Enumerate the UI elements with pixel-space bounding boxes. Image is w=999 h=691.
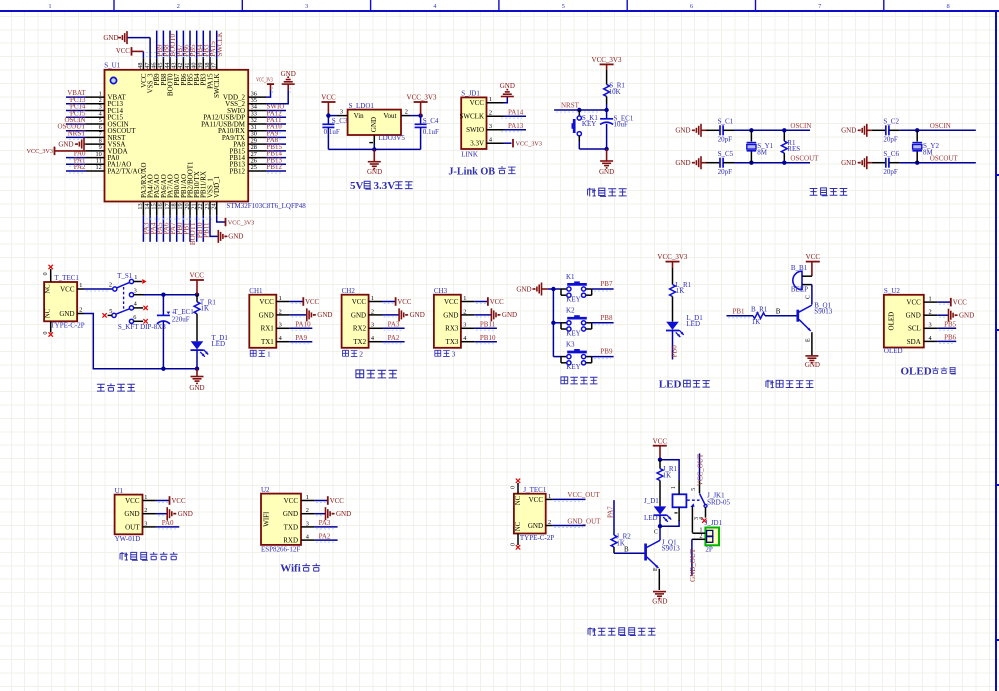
svg-text:OLED: OLED — [884, 347, 903, 355]
wire — [156, 526, 179, 528]
svg-text:GND: GND — [189, 384, 204, 392]
svg-text:VCC_OUT: VCC_OUT — [567, 491, 600, 499]
wire — [217, 216, 226, 222]
wire — [382, 341, 405, 343]
ground — [189, 377, 204, 392]
junction — [604, 147, 608, 151]
title power circuit — [97, 383, 135, 391]
wire — [701, 129, 706, 131]
svg-text:GND: GND — [959, 312, 974, 320]
wire — [811, 262, 813, 277]
wire — [287, 84, 289, 90]
ground — [367, 162, 382, 176]
wire — [162, 31, 164, 59]
svg-text:0: 0 — [42, 272, 49, 275]
wire — [504, 129, 527, 131]
svg-text:LDO3V5: LDO3V5 — [378, 134, 405, 142]
wire — [659, 515, 661, 526]
svg-text:GND: GND — [367, 168, 382, 176]
svg-text:20pF: 20pF — [718, 135, 733, 143]
svg-text:10K: 10K — [609, 88, 621, 96]
wire — [290, 341, 313, 343]
svg-text:PB7: PB7 — [600, 280, 613, 288]
wire — [937, 340, 956, 342]
svg-text:GND: GND — [59, 310, 74, 318]
svg-text:PB11: PB11 — [480, 321, 496, 329]
title OLED display — [901, 365, 957, 377]
power VCC — [303, 297, 319, 306]
wire — [900, 129, 976, 131]
wire — [867, 162, 872, 164]
svg-text:GND: GND — [443, 311, 458, 319]
svg-text:S_C4: S_C4 — [423, 117, 439, 125]
svg-text:VCC: VCC — [305, 299, 319, 306]
junction — [551, 287, 555, 291]
power VCC — [806, 253, 821, 262]
svg-text:5: 5 — [562, 3, 565, 10]
switch S_K1 KEY — [572, 110, 599, 142]
wire — [504, 97, 508, 103]
junction — [915, 128, 919, 132]
title crystal circuit — [810, 188, 848, 196]
svg-text:VCC_3V3: VCC_3V3 — [592, 56, 622, 64]
svg-text:0: 0 — [510, 543, 517, 546]
svg-text:2: 2 — [109, 281, 112, 288]
wire — [328, 115, 337, 117]
resistor T_R1 1K — [194, 295, 216, 342]
svg-text:LINK: LINK — [461, 151, 478, 159]
svg-text:GND: GND — [652, 598, 667, 606]
ground — [218, 230, 243, 243]
svg-text:LED: LED — [644, 514, 658, 522]
switch K3 KEY — [561, 341, 592, 372]
svg-text:GND: GND — [500, 82, 515, 90]
junction — [749, 161, 753, 165]
wire — [606, 64, 608, 70]
svg-text:GND: GND — [370, 117, 378, 132]
svg-text:S_U1: S_U1 — [104, 62, 120, 70]
title LED circuit — [659, 379, 710, 391]
pin GND LDO1 — [373, 135, 375, 144]
svg-text:PA2: PA2 — [74, 163, 86, 171]
no-connect marker — [516, 479, 520, 483]
svg-text:S_C3: S_C3 — [332, 117, 348, 125]
title serial circuit — [356, 370, 397, 378]
svg-text:NC: NC — [45, 308, 52, 318]
svg-text:GND: GND — [103, 34, 118, 42]
svg-text:PA2/TX/AO: PA2/TX/AO — [108, 167, 143, 175]
svg-text:GND: GND — [906, 312, 921, 320]
svg-text:Vout: Vout — [383, 112, 396, 120]
svg-text:5: 5 — [109, 308, 112, 315]
wire — [734, 162, 810, 164]
svg-text:SWIO: SWIO — [466, 126, 484, 134]
svg-text:B_R1: B_R1 — [751, 305, 768, 313]
wire — [127, 37, 150, 39]
ground — [500, 82, 515, 97]
svg-text:J_TEC1: J_TEC1 — [523, 486, 546, 494]
connector CH2 body — [342, 287, 382, 348]
capacitor T_EC1 220uF — [157, 295, 194, 369]
wire — [606, 104, 608, 110]
svg-text:C: C — [654, 529, 658, 535]
svg-text:VCC: VCC — [125, 497, 140, 505]
IC U1 pin names and numbers — [86, 58, 266, 216]
wire — [659, 526, 661, 540]
svg-text:VCC: VCC — [259, 298, 274, 306]
svg-text:GND: GND — [317, 311, 332, 319]
power VCC — [189, 272, 204, 280]
wire — [553, 356, 561, 358]
label serial 1 — [250, 349, 271, 358]
power VCC_3V3 — [226, 218, 255, 227]
wire — [176, 31, 178, 59]
switch T_S1 S_KFT DIP-8X8 — [108, 272, 167, 331]
svg-text:10uF: 10uF — [614, 121, 629, 129]
svg-text:20pF: 20pF — [718, 168, 733, 176]
ground — [491, 308, 517, 321]
svg-text:B: B — [776, 307, 781, 315]
wire — [266, 130, 286, 132]
svg-text:3.3V: 3.3V — [374, 180, 396, 192]
svg-text:PB9: PB9 — [600, 348, 613, 356]
svg-text:RX3: RX3 — [445, 325, 459, 333]
wire — [691, 539, 693, 575]
svg-text:OSCOUT: OSCOUT — [930, 154, 959, 162]
wire — [734, 129, 810, 131]
wire — [132, 50, 144, 52]
svg-text:KEY: KEY — [582, 120, 596, 128]
svg-text:VCC: VCC — [321, 94, 336, 102]
wire — [169, 31, 171, 59]
svg-text:VCC: VCC — [953, 299, 967, 306]
ground — [307, 308, 333, 321]
wire — [672, 331, 674, 360]
svg-text:GND: GND — [599, 168, 614, 176]
wire — [811, 285, 813, 305]
wire — [314, 513, 325, 515]
svg-text:VCC_3V3: VCC_3V3 — [516, 141, 542, 148]
wire — [553, 322, 561, 324]
transistor B_Q1 S9013 — [798, 295, 833, 355]
svg-text:K3: K3 — [566, 341, 575, 349]
wire — [474, 301, 488, 303]
no-connect marker — [142, 279, 146, 284]
wire — [328, 148, 420, 150]
no-connect marker — [102, 313, 106, 317]
label serial 2 — [343, 349, 364, 358]
svg-text:YW-01D: YW-01D — [115, 535, 141, 543]
svg-text:OSCIN: OSCIN — [790, 122, 811, 130]
svg-text:J_D1: J_D1 — [644, 497, 659, 505]
title 5V to 3.3V circuit — [350, 180, 413, 192]
svg-text:3: 3 — [305, 3, 308, 10]
svg-text:LED: LED — [686, 320, 700, 328]
junction — [782, 128, 786, 132]
wire — [373, 144, 375, 150]
wire — [266, 91, 271, 98]
ground — [675, 156, 701, 169]
power VCC_3V3 — [592, 56, 622, 65]
power VCC_3V3 — [657, 253, 687, 262]
ground — [949, 309, 975, 322]
connector CH1 body — [249, 287, 289, 348]
svg-text:U2: U2 — [261, 486, 270, 494]
ground — [281, 70, 296, 84]
wire — [542, 288, 548, 290]
LED T_D1 — [191, 334, 229, 357]
svg-text:VCC: VCC — [653, 437, 668, 445]
resistor J_R1 1K — [657, 460, 677, 507]
wire — [614, 552, 645, 554]
svg-text:5V: 5V — [350, 180, 364, 192]
svg-text:VCC: VCC — [397, 299, 411, 306]
svg-text:VCC: VCC — [444, 298, 459, 306]
wire — [266, 110, 286, 112]
svg-text:PA2: PA2 — [388, 334, 400, 342]
svg-text:GND: GND — [178, 510, 193, 518]
wire — [156, 513, 167, 515]
svg-text:12: 12 — [96, 164, 102, 171]
svg-text:GND: GND — [259, 311, 274, 319]
svg-text:2: 2 — [699, 533, 702, 540]
connector T_TEC1 TYPE-C-2P body — [42, 269, 85, 335]
resistor L_R1 1K — [670, 268, 692, 322]
capacitor S_C6 20pF — [883, 150, 899, 176]
wire — [504, 115, 527, 117]
svg-text:B: B — [624, 546, 629, 554]
ground — [58, 138, 84, 151]
wire — [149, 216, 151, 242]
svg-text:S_C6: S_C6 — [883, 150, 899, 158]
svg-text:LED: LED — [659, 379, 682, 391]
wire — [266, 136, 286, 138]
svg-text:S_LDO1: S_LDO1 — [349, 102, 375, 110]
ground — [399, 308, 425, 321]
svg-text:B_B1: B_B1 — [791, 264, 808, 272]
svg-text:E: E — [806, 338, 812, 342]
svg-text:S_C5: S_C5 — [718, 150, 734, 158]
wire — [156, 500, 170, 502]
svg-text:VCC_3V3: VCC_3V3 — [256, 78, 273, 84]
svg-text:VCC: VCC — [529, 496, 544, 504]
wire — [382, 301, 396, 303]
svg-text:2: 2 — [359, 349, 363, 358]
svg-text:1: 1 — [267, 349, 271, 358]
svg-text:RXD: RXD — [283, 537, 298, 545]
svg-text:3: 3 — [134, 287, 137, 294]
no-connect marker — [49, 265, 53, 269]
wire — [196, 216, 198, 242]
transistor J_Q1 S9013 — [646, 529, 681, 590]
wire — [314, 526, 337, 528]
svg-text:RES: RES — [787, 145, 800, 153]
LED J_D1 — [644, 497, 671, 522]
wire — [156, 31, 158, 59]
junction — [782, 161, 786, 165]
ground — [675, 124, 701, 137]
wire — [290, 314, 307, 316]
wire — [592, 288, 614, 290]
wire — [84, 288, 113, 290]
svg-text:VCC: VCC — [189, 272, 204, 280]
wire — [613, 500, 615, 535]
svg-text:GND: GND — [351, 311, 366, 319]
ground — [196, 369, 198, 377]
junction — [551, 321, 555, 325]
ground — [841, 156, 867, 169]
wire — [189, 31, 191, 59]
svg-text:S_JD1: S_JD1 — [461, 90, 480, 98]
title wifi module — [280, 563, 320, 575]
svg-text:Vin: Vin — [354, 112, 365, 120]
wire — [552, 498, 585, 500]
connector CH3 body — [434, 287, 474, 348]
svg-text:T_TEC1: T_TEC1 — [54, 274, 79, 282]
svg-text:GND: GND — [228, 233, 243, 241]
svg-text:20pF: 20pF — [883, 135, 898, 143]
wire — [867, 129, 872, 131]
svg-text:5: 5 — [691, 488, 697, 491]
wire — [66, 116, 86, 118]
svg-text:S9013: S9013 — [662, 544, 680, 552]
LED L_D1 — [666, 314, 703, 337]
svg-text:1K: 1K — [201, 305, 210, 313]
wire — [142, 51, 144, 58]
title liquid level module — [120, 552, 178, 560]
svg-text:0.1uF: 0.1uF — [324, 128, 340, 136]
svg-text:S_C1: S_C1 — [718, 117, 734, 125]
wire — [578, 142, 580, 150]
wire — [290, 301, 304, 303]
power VCC — [488, 297, 504, 306]
svg-text:GND: GND — [283, 510, 298, 518]
svg-text:GND: GND — [502, 311, 517, 319]
svg-text:PA0: PA0 — [162, 519, 174, 527]
svg-text:LED: LED — [212, 340, 226, 348]
svg-text:PA9: PA9 — [295, 334, 307, 342]
wire — [474, 314, 491, 316]
junction — [161, 293, 165, 297]
pin 3 LDO1 — [337, 115, 348, 117]
ground — [652, 592, 667, 606]
svg-text:S_KFT DIP-8X8: S_KFT DIP-8X8 — [118, 323, 166, 331]
resistor R1 RES — [781, 130, 800, 162]
wire — [554, 109, 607, 111]
wire — [474, 341, 497, 343]
junction — [658, 458, 662, 462]
svg-text:PA10: PA10 — [295, 321, 311, 329]
wire — [699, 453, 701, 481]
wire — [176, 216, 178, 242]
wire — [66, 170, 86, 172]
junction — [326, 113, 330, 117]
svg-text:OLED: OLED — [901, 365, 932, 377]
switch K2 KEY — [561, 307, 592, 338]
svg-text:VCC: VCC — [116, 48, 130, 55]
svg-text:NC: NC — [515, 495, 522, 505]
svg-text:C: C — [806, 295, 812, 299]
wire — [314, 500, 327, 502]
svg-text:TYPE-C-2P: TYPE-C-2P — [50, 322, 84, 330]
power VCC — [321, 94, 336, 103]
svg-text:PA7: PA7 — [607, 506, 615, 518]
svg-text:VCC: VCC — [352, 298, 367, 306]
wire — [182, 31, 184, 59]
title reset circuit — [588, 188, 627, 197]
wire — [189, 216, 191, 242]
sheet border right edge — [996, 11, 999, 691]
svg-text:PB6: PB6 — [944, 334, 957, 342]
power VCC — [396, 297, 412, 306]
svg-text:PB8: PB8 — [600, 314, 613, 322]
capacitor S_C3 0.1uF — [322, 116, 347, 150]
ground — [599, 161, 614, 176]
svg-text:8: 8 — [946, 3, 949, 10]
power VCC_3V3 — [407, 94, 437, 103]
connector U1 YW-01D body — [115, 487, 156, 543]
resistor B_R1 1K — [751, 305, 768, 325]
svg-text:GND: GND — [841, 127, 856, 135]
label serial 3 — [435, 349, 456, 358]
svg-text:TX2: TX2 — [353, 338, 366, 346]
wire — [149, 38, 151, 59]
junction — [915, 161, 919, 165]
svg-text:220uF: 220uF — [172, 315, 190, 323]
power VCC — [328, 496, 344, 505]
junction — [195, 293, 199, 297]
ground — [103, 31, 127, 44]
svg-text:TYPE-C-2P: TYPE-C-2P — [520, 534, 554, 542]
ground — [805, 356, 820, 369]
svg-text:NC: NC — [45, 284, 52, 294]
junction — [161, 367, 165, 371]
wire — [196, 31, 198, 59]
wire — [266, 91, 288, 104]
junction — [577, 108, 581, 112]
svg-text:VCC: VCC — [60, 285, 75, 293]
svg-text:PB1: PB1 — [733, 307, 746, 315]
power VCC — [116, 47, 132, 56]
junction — [604, 108, 608, 112]
wire — [592, 356, 614, 358]
wire — [66, 96, 86, 98]
svg-text:TX1: TX1 — [261, 338, 274, 346]
svg-text:3.3V: 3.3V — [470, 140, 484, 148]
wire — [660, 520, 679, 526]
wire — [66, 130, 86, 132]
svg-text:SRD-05: SRD-05 — [707, 499, 730, 507]
svg-text:S9013: S9013 — [814, 307, 832, 315]
wire — [937, 327, 956, 329]
svg-text:VCC_3V3: VCC_3V3 — [657, 253, 687, 261]
resistor S_R1 10K — [604, 70, 626, 104]
svg-text:CH2: CH2 — [342, 287, 356, 295]
wire — [210, 216, 218, 237]
IC U1 STM32F103C8T6_LQFP48 body — [104, 62, 306, 211]
power VCC — [170, 496, 186, 505]
svg-text:OSCIN: OSCIN — [930, 122, 951, 130]
connector JD1 J-Link body — [460, 90, 504, 159]
svg-text:GND: GND — [410, 311, 425, 319]
svg-text:VCC_3V3: VCC_3V3 — [27, 148, 53, 155]
svg-text:2: 2 — [177, 3, 180, 10]
svg-text:1K: 1K — [663, 471, 672, 479]
svg-text:GND: GND — [281, 70, 296, 78]
svg-text:S_C2: S_C2 — [883, 117, 899, 125]
wire — [266, 143, 286, 145]
svg-text:8M: 8M — [923, 149, 934, 157]
